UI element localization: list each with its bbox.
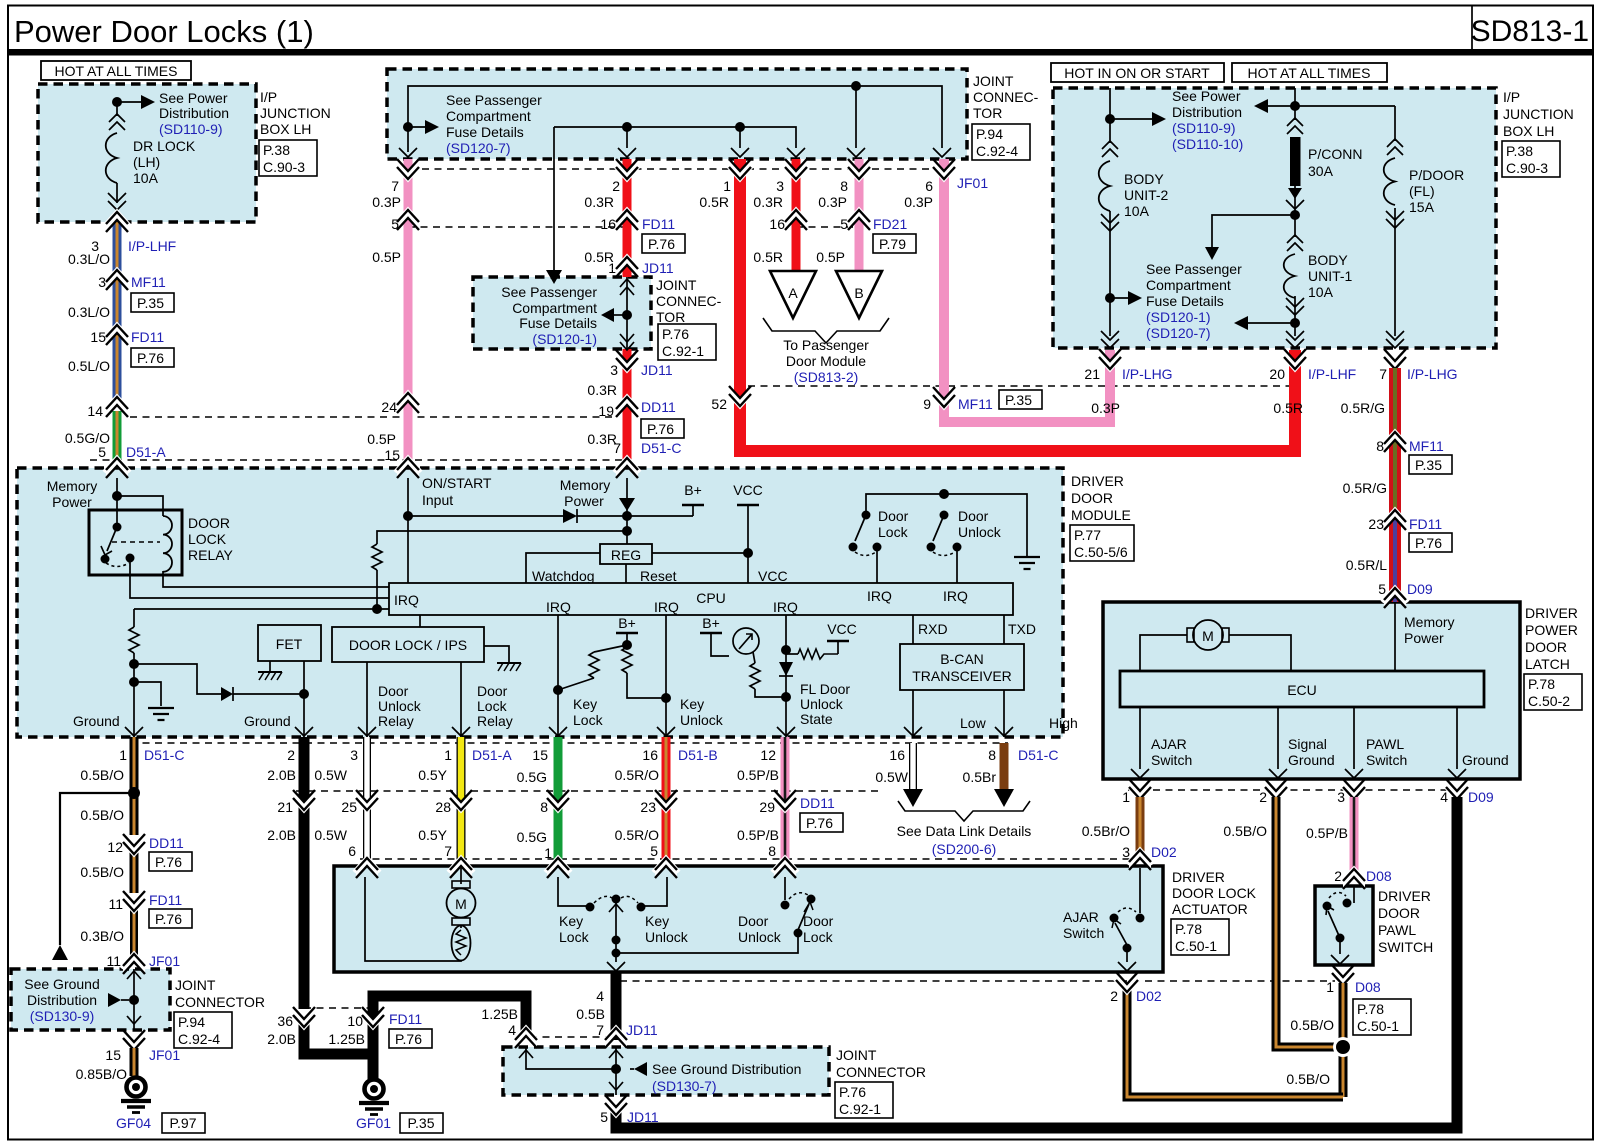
- svg-text:IRQ: IRQ: [867, 588, 892, 604]
- svg-text:20: 20: [1269, 366, 1285, 382]
- pawl switch symbol: [1323, 886, 1355, 964]
- svg-text:HOT AT ALL TIMES: HOT AT ALL TIMES: [1248, 65, 1371, 81]
- relay sense resistor line: [129, 604, 389, 737]
- fuse BODY UNIT-1 10A: [1284, 215, 1353, 336]
- I/P junction box LH text: [259, 89, 331, 176]
- svg-text:See Passenger: See Passenger: [1146, 261, 1242, 277]
- connector dashed line 14/24/19 row: [130, 416, 614, 418]
- svg-text:Input: Input: [422, 492, 453, 508]
- svg-text:15: 15: [384, 447, 400, 463]
- svg-text:PAWL: PAWL: [1366, 736, 1404, 752]
- svg-text:P.78: P.78: [1528, 676, 1555, 692]
- title bar thick rule: [8, 49, 1593, 56]
- connector pin 3 (red x796): [776, 159, 809, 194]
- svg-text:DOOR LOCK: DOOR LOCK: [1172, 885, 1257, 901]
- connector JD11 pin 1 (red): [608, 257, 674, 278]
- connector dashed line MF11 row: [748, 385, 1294, 387]
- pin 2 labels: [267, 747, 296, 783]
- wire 0.5Y module pin4: [457, 737, 466, 868]
- svg-text:CPU: CPU: [696, 590, 726, 606]
- wire: fuse feed: [116, 102, 118, 116]
- svg-text:D09: D09: [1407, 581, 1433, 597]
- REG reset line: [626, 564, 677, 584]
- svg-text:DOOR LOCK / IPS: DOOR LOCK / IPS: [349, 637, 467, 653]
- svg-text:Unlock: Unlock: [378, 698, 422, 714]
- svg-text:21: 21: [277, 799, 293, 815]
- door lock relay lead: [452, 662, 513, 737]
- connector pin 5 (pink): [391, 210, 421, 233]
- wire label 0.3R: [587, 382, 617, 398]
- svg-text:POWER: POWER: [1525, 622, 1578, 638]
- svg-text:P.79: P.79: [879, 236, 906, 252]
- svg-text:D09: D09: [1468, 789, 1494, 805]
- fuse P/DOOR (FL) 15A: [1384, 106, 1464, 336]
- svg-text:JD11: JD11: [642, 260, 674, 276]
- svg-text:0.5R/L: 0.5R/L: [1346, 557, 1387, 573]
- title text: [14, 14, 314, 49]
- connector JD11 pin 7: [603, 1028, 629, 1049]
- svg-text:Unlock: Unlock: [680, 712, 724, 728]
- door lock / ips box: [332, 615, 521, 671]
- pin 15 labels: [517, 747, 549, 785]
- wire 0.5P/B module pin7: [781, 737, 790, 868]
- key lock B+ and resistors: [558, 615, 671, 703]
- svg-text:(SD120-1): (SD120-1): [532, 331, 597, 347]
- connector pin 2 (red): [612, 159, 640, 194]
- wire label 0.5P: [372, 249, 401, 265]
- svg-text:MODULE: MODULE: [1071, 507, 1131, 523]
- svg-text:Compartment: Compartment: [1146, 277, 1231, 293]
- svg-text:Compartment: Compartment: [512, 300, 597, 316]
- svg-text:0.5R: 0.5R: [699, 194, 729, 210]
- svg-text:0.5P/B: 0.5P/B: [1306, 825, 1348, 841]
- svg-text:0.5B/O: 0.5B/O: [1286, 1071, 1330, 1087]
- connector DD11 pin 12: [107, 834, 192, 871]
- svg-text:0.5Br/O: 0.5Br/O: [1082, 823, 1130, 839]
- svg-text:DOOR: DOOR: [1525, 639, 1567, 655]
- wire 0.5R/G x1395: [1389, 368, 1401, 512]
- SD120-1 arrow + text: [501, 284, 627, 347]
- see power distribution text: [159, 90, 229, 137]
- connector JF01 pin 15: [105, 1030, 180, 1063]
- svg-text:Distribution: Distribution: [1172, 104, 1242, 120]
- svg-text:0.5B/O: 0.5B/O: [1223, 823, 1267, 839]
- svg-text:0.5B/O: 0.5B/O: [80, 807, 124, 823]
- svg-text:D02: D02: [1136, 988, 1162, 1004]
- pull-up line to ON/START: [372, 531, 626, 609]
- svg-text:30A: 30A: [1308, 163, 1334, 179]
- wire 0.5Br/O latch ajar: [1082, 797, 1140, 860]
- long arrow down to SD120-1: [546, 127, 562, 284]
- svg-text:BOX LH: BOX LH: [260, 121, 311, 137]
- svg-text:D51-A: D51-A: [126, 444, 166, 460]
- svg-text:TXD: TXD: [1008, 621, 1036, 637]
- svg-text:12: 12: [760, 747, 776, 763]
- title separator vertical: [1471, 6, 1473, 50]
- joint connector box SD130-9: [11, 969, 170, 1030]
- svg-text:8: 8: [1376, 438, 1384, 454]
- svg-text:VCC: VCC: [758, 568, 788, 584]
- pin 1 D51-C labels: [80, 747, 184, 783]
- connector JD11 pin 5: [600, 1095, 659, 1125]
- svg-text:(SD120-1): (SD120-1): [1146, 309, 1211, 325]
- diode branch to pin2: [134, 664, 309, 701]
- wire label 0.5R (routed): [1273, 400, 1303, 416]
- svg-text:BOX LH: BOX LH: [1503, 123, 1554, 139]
- fuse BODY UNIT-2 10A: [1099, 141, 1169, 336]
- memory power feed into relay: [112, 478, 163, 527]
- svg-text:7: 7: [1379, 366, 1387, 382]
- svg-text:28: 28: [435, 799, 451, 815]
- svg-text:P.97: P.97: [170, 1115, 197, 1131]
- svg-text:A: A: [788, 285, 798, 301]
- svg-text:UNIT-1: UNIT-1: [1308, 268, 1353, 284]
- svg-text:5: 5: [391, 216, 399, 232]
- latch pin leads: [1131, 707, 1466, 778]
- SD120-7 box internal bus top: [408, 81, 942, 148]
- svg-text:RXD: RXD: [918, 621, 948, 637]
- wire label 0.5R: [584, 249, 614, 265]
- memory power label (relay): [47, 478, 98, 510]
- svg-text:(SD130-7): (SD130-7): [652, 1078, 717, 1094]
- svg-text:Power: Power: [564, 493, 604, 509]
- svg-text:Power: Power: [52, 494, 92, 510]
- svg-text:JF01: JF01: [149, 953, 180, 969]
- label HOT AT ALL TIMES (left): [41, 61, 191, 80]
- wire 0.5R/L x1395: [1389, 512, 1401, 602]
- connector dashed line D02 top row: [360, 858, 1150, 860]
- wire 0.5Br data link: [994, 743, 1014, 807]
- svg-text:B+: B+: [684, 482, 702, 498]
- FL door IRQ line with diode: [777, 615, 850, 737]
- wire label 0.3R: [584, 194, 614, 210]
- connector D51-C pin 7: [613, 440, 681, 478]
- svg-text:16: 16: [642, 747, 658, 763]
- svg-text:16: 16: [600, 216, 616, 232]
- connector pin 8 (pink x859): [840, 159, 872, 194]
- svg-text:Signal: Signal: [1288, 736, 1327, 752]
- svg-text:See Power: See Power: [1172, 88, 1241, 104]
- triangle B: [836, 271, 882, 318]
- connector pin 25: [314, 790, 380, 859]
- svg-text:High: High: [1049, 715, 1078, 731]
- svg-text:Key: Key: [680, 696, 704, 712]
- svg-text:0.5L/O: 0.5L/O: [68, 358, 110, 374]
- svg-text:(SD120-7): (SD120-7): [1146, 325, 1211, 341]
- svg-text:29: 29: [759, 799, 775, 815]
- svg-text:C.92-4: C.92-4: [976, 143, 1018, 159]
- svg-text:JOINT: JOINT: [836, 1047, 877, 1063]
- wire label 0.5R/G lower: [1343, 480, 1387, 496]
- svg-text:0.5R: 0.5R: [753, 249, 783, 265]
- svg-text:VCC: VCC: [733, 482, 763, 498]
- ground GF01: [356, 1080, 443, 1134]
- svg-text:0.5R: 0.5R: [1273, 400, 1303, 416]
- connector pin 23: [615, 790, 679, 859]
- svg-text:Unlock: Unlock: [738, 929, 782, 945]
- svg-text:0.3R: 0.3R: [584, 194, 614, 210]
- svg-text:Door: Door: [477, 683, 508, 699]
- wire 2.0B module pin2: [304, 737, 370, 1054]
- connector D09 pin 5: [1378, 581, 1433, 608]
- svg-text:3: 3: [350, 747, 358, 763]
- svg-text:RELAY: RELAY: [188, 547, 234, 563]
- diode B+ feed line: [408, 509, 693, 523]
- svg-text:Unlock: Unlock: [958, 524, 1002, 540]
- svg-text:0.3P: 0.3P: [1091, 400, 1120, 416]
- joint connector label (top right): [972, 73, 1039, 160]
- svg-text:CONNEC-: CONNEC-: [656, 293, 722, 309]
- svg-text:36: 36: [277, 1013, 293, 1029]
- svg-text:D51-C: D51-C: [1018, 747, 1058, 763]
- FL door VCC pullup: [786, 621, 857, 659]
- svg-text:IRQ: IRQ: [773, 599, 798, 615]
- svg-text:LOCK: LOCK: [188, 531, 227, 547]
- svg-text:Switch: Switch: [1366, 752, 1407, 768]
- latch pin numbers: [1122, 789, 1494, 805]
- svg-text:Door: Door: [878, 508, 909, 524]
- svg-text:DRIVER: DRIVER: [1378, 888, 1431, 904]
- pin 16 D51-B labels: [615, 747, 718, 783]
- svg-text:FD11: FD11: [149, 892, 182, 908]
- see passenger compartment text (right): [1146, 261, 1242, 341]
- svg-text:IRQ: IRQ: [654, 599, 679, 615]
- svg-text:FET: FET: [276, 636, 303, 652]
- svg-text:P.76: P.76: [137, 350, 164, 366]
- svg-text:I/P: I/P: [260, 89, 277, 105]
- svg-text:10A: 10A: [1308, 284, 1334, 300]
- svg-text:P.76: P.76: [155, 911, 182, 927]
- actuator motor M: [447, 868, 476, 925]
- svg-text:15A: 15A: [1409, 199, 1435, 215]
- connector FD11 pin 15: [90, 325, 174, 368]
- svg-text:Watchdog: Watchdog: [532, 568, 595, 584]
- svg-text:5: 5: [650, 843, 658, 859]
- svg-text:(SD120-7): (SD120-7): [446, 140, 511, 156]
- svg-text:Lock: Lock: [477, 698, 508, 714]
- FET box: [244, 625, 321, 737]
- connector pin 28: [418, 790, 474, 859]
- svg-text:3: 3: [98, 274, 106, 290]
- svg-text:FD11: FD11: [642, 216, 675, 232]
- svg-text:P.76: P.76: [647, 421, 674, 437]
- svg-text:P.38: P.38: [1506, 143, 1533, 159]
- svg-text:2: 2: [612, 178, 620, 194]
- svg-text:DRIVER: DRIVER: [1172, 869, 1225, 885]
- wire 0.5B/O latch signal ground: [1223, 797, 1338, 1047]
- node + arrow see passenger SD120-7: [403, 120, 439, 152]
- svg-text:0.5P/B: 0.5P/B: [737, 767, 779, 783]
- svg-text:To Passenger: To Passenger: [783, 337, 869, 353]
- actuator common pin 4 wire 0.5B: [611, 972, 622, 1040]
- SD120-7 box internal bus second: [554, 122, 796, 148]
- wire label 0.5R/G: [1341, 400, 1385, 416]
- REG box: [600, 544, 652, 564]
- svg-text:P.94: P.94: [178, 1014, 205, 1030]
- svg-text:Key: Key: [645, 913, 669, 929]
- svg-text:ACTUATOR: ACTUATOR: [1172, 901, 1248, 917]
- connector DD11 pin 19: [598, 397, 684, 439]
- svg-text:B+: B+: [702, 615, 720, 631]
- svg-text:1: 1: [1326, 979, 1334, 995]
- svg-text:0.5B/O: 0.5B/O: [1290, 1017, 1334, 1033]
- svg-text:0.3P: 0.3P: [818, 194, 847, 210]
- svg-text:JD11: JD11: [627, 1109, 659, 1125]
- wire label 0.3P: [372, 194, 401, 210]
- svg-text:0.5W: 0.5W: [314, 827, 347, 843]
- connector pin 14: [87, 397, 130, 420]
- svg-text:AJAR: AJAR: [1151, 736, 1187, 752]
- svg-text:(SD813-2): (SD813-2): [794, 369, 859, 385]
- connector FD11 pin 11: [108, 891, 192, 928]
- I/P junction box LH (right) text: [1502, 89, 1574, 177]
- pin 4 labels: [576, 988, 658, 1038]
- connector pin 52 (thick red): [711, 386, 753, 412]
- connector FD21 pin 5: [840, 210, 916, 254]
- svg-text:0.5P/B: 0.5P/B: [737, 827, 779, 843]
- svg-text:Switch: Switch: [1151, 752, 1192, 768]
- svg-text:ECU: ECU: [1287, 682, 1317, 698]
- svg-text:UNIT-2: UNIT-2: [1124, 187, 1169, 203]
- svg-text:0.3L/O: 0.3L/O: [68, 304, 110, 320]
- svg-text:JUNCTION: JUNCTION: [1503, 106, 1574, 122]
- svg-text:14: 14: [87, 403, 103, 419]
- svg-text:M: M: [455, 896, 467, 912]
- pin 8 D51-C labels: [963, 747, 1059, 785]
- svg-text:C.50-5/6: C.50-5/6: [1074, 544, 1128, 560]
- wire 0.5B/O ajar run bottom: [1127, 983, 1343, 1097]
- wire 0.3R/0.5R red x627: [623, 159, 632, 468]
- svg-text:BODY: BODY: [1308, 252, 1348, 268]
- connector dashed line DD11 row: [296, 790, 880, 792]
- svg-text:Ground: Ground: [1462, 752, 1509, 768]
- svg-text:Door: Door: [378, 683, 409, 699]
- svg-text:5: 5: [98, 444, 106, 460]
- svg-text:IRQ: IRQ: [546, 599, 571, 615]
- svg-text:JOINT: JOINT: [973, 73, 1014, 89]
- svg-text:0.5B: 0.5B: [576, 1006, 605, 1022]
- svg-text:Key: Key: [559, 913, 583, 929]
- svg-text:Lock: Lock: [559, 929, 590, 945]
- connector pin 16 (x796): [769, 210, 809, 233]
- driver door pawl switch box: [1315, 886, 1373, 965]
- svg-text:TOR: TOR: [973, 105, 1002, 121]
- svg-text:2: 2: [1110, 988, 1118, 1004]
- body unit-2 feed line: [1105, 88, 1166, 143]
- svg-text:Relay: Relay: [378, 713, 414, 729]
- key unlock line: [657, 615, 724, 737]
- latch label: [1524, 605, 1582, 710]
- svg-text:0.5P: 0.5P: [372, 249, 401, 265]
- joint connector label SD120-1: [656, 277, 722, 360]
- svg-text:M: M: [1202, 628, 1214, 644]
- door lock switch: [849, 508, 909, 583]
- svg-text:Lock: Lock: [803, 929, 834, 945]
- svg-text:Switch: Switch: [1063, 925, 1104, 941]
- wire label 0.5R: [753, 249, 783, 265]
- connector pin 21 (2.0B): [267, 790, 317, 843]
- svg-text:C.92-4: C.92-4: [178, 1031, 220, 1047]
- branch arrow down to text: [1205, 210, 1300, 260]
- wire label 0.5B/O (3): [80, 864, 124, 880]
- triangle A: [770, 271, 816, 318]
- svg-text:HOT IN ON OR START: HOT IN ON OR START: [1064, 65, 1210, 81]
- body unit-2 lower junction arrow: [1105, 291, 1142, 305]
- P/CONN feed top: [1254, 88, 1395, 120]
- svg-text:SD813-1: SD813-1: [1471, 15, 1589, 48]
- svg-text:Fuse Details: Fuse Details: [519, 315, 597, 331]
- svg-text:(SD130-9): (SD130-9): [30, 1008, 95, 1024]
- svg-text:CONNECTOR: CONNECTOR: [836, 1064, 926, 1080]
- svg-text:P.35: P.35: [1415, 457, 1442, 473]
- svg-text:DR LOCK: DR LOCK: [133, 138, 196, 154]
- connector JD11 pin 4: [481, 1006, 539, 1048]
- see power distribution text (right): [1172, 88, 1243, 152]
- wire 0.5B/O pawl to junction: [1290, 983, 1343, 1097]
- svg-text:Low: Low: [960, 715, 987, 731]
- svg-text:8: 8: [840, 178, 848, 194]
- svg-text:4: 4: [596, 988, 604, 1004]
- svg-text:D08: D08: [1355, 979, 1381, 995]
- wire label 0.5B/O (2): [80, 807, 124, 823]
- wire 0.85B/O to ground: [76, 1048, 134, 1082]
- svg-text:HOT AT ALL TIMES: HOT AT ALL TIMES: [55, 63, 178, 79]
- wire label 0.5P: [816, 249, 845, 265]
- wire label 0.3R: [753, 194, 783, 210]
- svg-text:0.5B/O: 0.5B/O: [80, 864, 124, 880]
- driver door lock actuator box: [334, 866, 1163, 972]
- connector D51-A pin 5: [98, 444, 166, 478]
- svg-text:0.3P: 0.3P: [904, 194, 933, 210]
- svg-text:Lock: Lock: [878, 524, 909, 540]
- node: power feed junction in left box: [112, 95, 155, 109]
- svg-text:C.90-3: C.90-3: [263, 159, 305, 175]
- svg-text:D02: D02: [1151, 844, 1177, 860]
- wire label 0.3L/O: [68, 251, 110, 267]
- svg-text:Unlock: Unlock: [800, 696, 844, 712]
- svg-text:P.35: P.35: [1005, 392, 1032, 408]
- SD120-1 in-box wire: [620, 277, 634, 350]
- B-CAN transceiver: [900, 615, 1036, 690]
- svg-text:JOINT: JOINT: [656, 277, 697, 293]
- svg-text:P/CONN: P/CONN: [1308, 146, 1362, 162]
- connector dashed line (top pins row): [397, 168, 955, 170]
- driver power door latch box: [1103, 602, 1520, 779]
- svg-text:11: 11: [106, 953, 121, 969]
- SD130-9 box content: [24, 969, 141, 1030]
- wire 0.3P pink JF01 routed to I/P-LHG 21: [944, 159, 1110, 422]
- connector I/P-LHF pin 20: [1269, 349, 1356, 382]
- svg-text:D51-C: D51-C: [144, 747, 184, 763]
- svg-text:P.76: P.76: [662, 326, 689, 342]
- door lock relay box: [89, 510, 234, 575]
- svg-text:0.5R/O: 0.5R/O: [615, 767, 659, 783]
- actuator door switch: [616, 877, 834, 953]
- svg-text:P.35: P.35: [408, 1115, 435, 1131]
- svg-text:I/P-LHG: I/P-LHG: [1407, 366, 1458, 382]
- svg-text:1: 1: [444, 747, 452, 763]
- latch pin labels: [1151, 736, 1509, 768]
- wire 0.5R thick red x740 routed to I/P-LHF 20: [740, 159, 1295, 451]
- svg-text:JF01: JF01: [149, 1047, 180, 1063]
- svg-text:0.3P: 0.3P: [372, 194, 401, 210]
- wire label 0.3R lower: [587, 431, 617, 447]
- svg-text:16: 16: [889, 747, 905, 763]
- svg-text:1: 1: [1122, 789, 1130, 805]
- svg-text:7: 7: [391, 178, 399, 194]
- connector D08 pin 1: [1326, 965, 1411, 1035]
- svg-text:3: 3: [610, 362, 618, 378]
